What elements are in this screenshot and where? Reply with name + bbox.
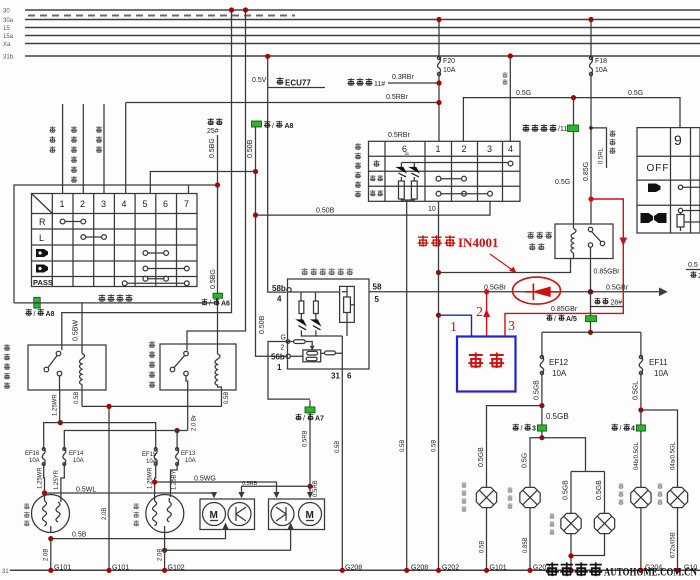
- svg-text:0.5B: 0.5B: [480, 541, 486, 553]
- svg-text:G101: G101: [54, 565, 71, 572]
- night switch internals resistors and lamps: [289, 292, 342, 369]
- light switch column headers 6 1 2 3 4: [402, 144, 513, 154]
- svg-text:2.0 Br: 2.0 Br: [192, 415, 198, 431]
- dimmer switch contacts high beam row: [143, 251, 169, 256]
- svg-text:0.5RB: 0.5RB: [242, 481, 258, 487]
- night light adjust switch 夜光调节开关 box: [288, 279, 370, 369]
- wire to left tail lamp 0.5G: [522, 438, 542, 487]
- connector 仪/官A6: [201, 293, 230, 307]
- fuse EF13: [171, 431, 197, 498]
- wire 0.5RBr from dimmer switch col4 to F20 wire: [126, 94, 439, 103]
- left tail lamp 左尾灯: [520, 487, 540, 507]
- node 0.50B wire y=171.8 feed from dimmer col5: [253, 169, 258, 174]
- svg-text:25#: 25#: [207, 128, 219, 135]
- wire 0.5RB branch to motor box1 K: [242, 481, 311, 497]
- wire right tail lamp to ground G204: [641, 508, 662, 572]
- fuse EF12: [534, 332, 569, 405]
- node main beam feed: [58, 420, 63, 425]
- label 仪表25#: [207, 118, 223, 135]
- svg-text:0.5B: 0.5B: [72, 532, 87, 539]
- svg-text:/: /: [554, 316, 556, 323]
- wire 0.50B from connector A8 to night-light switch 56b: [247, 121, 286, 356]
- node F20 wire y=83: [436, 80, 441, 85]
- svg-text:0.50B: 0.50B: [259, 315, 266, 334]
- svg-text:4: 4: [508, 144, 513, 154]
- light switch col6 illumination lamps and resistors: [398, 152, 419, 201]
- svg-text:1.25WR: 1.25WR: [38, 467, 44, 489]
- small lamp relay coil: [571, 224, 577, 259]
- wire 0.5G feeding light switch col2 and headlamp switch: [463, 90, 680, 141]
- stub wire to ECU77: [268, 77, 325, 87]
- wire dimmer col4 up to 0.5RBr wire: [125, 103, 127, 194]
- bus line 15a: [3, 34, 700, 40]
- dimmer switch contacts low beam row: [143, 266, 189, 271]
- terminal 56b / 1: [271, 353, 290, 373]
- license plate lamp left 牌照灯: [561, 513, 581, 533]
- svg-text:0.5RBr: 0.5RBr: [386, 94, 408, 101]
- svg-text:58: 58: [373, 283, 382, 292]
- svg-text:4: 4: [277, 295, 282, 304]
- wire dimmer col5 up to 0.50B wire: [150, 172, 255, 194]
- svg-text:IN4001: IN4001: [458, 235, 498, 250]
- wire far right lamp to ground 672a/05B: [671, 508, 698, 572]
- svg-text:10A: 10A: [552, 369, 567, 378]
- svg-text:0.5G: 0.5G: [555, 179, 570, 186]
- node F20 wire y=102.5: [436, 100, 441, 105]
- svg-text:EF16: EF16: [25, 451, 40, 457]
- svg-text:1: 1: [277, 363, 282, 372]
- node on bus 31b at x=267.7: [265, 54, 270, 59]
- svg-text:04b/0.5GL: 04b/0.5GL: [634, 441, 640, 470]
- svg-text:2: 2: [476, 305, 483, 320]
- svg-text:/: /: [209, 301, 211, 308]
- wire to far right tail lamp 04a/0.5GL: [641, 410, 678, 487]
- svg-text:G102: G102: [168, 565, 185, 572]
- wire right lamp to ground G102: [158, 533, 185, 572]
- wire to small lamp relay coil return: [439, 259, 571, 273]
- svg-text:0.5GB: 0.5GB: [596, 480, 603, 500]
- headlamp switch table right frame: [637, 128, 700, 233]
- bus line Xa: [3, 42, 700, 48]
- svg-text:1: 1: [60, 199, 65, 209]
- svg-text:/: /: [303, 416, 305, 423]
- diode IN4001 symbol: [525, 284, 559, 300]
- label 转向灯继电器 vertical: [71, 126, 77, 183]
- relay 1 coil feed wire 0.5BW: [14, 303, 218, 354]
- svg-text:11#: 11#: [374, 81, 385, 88]
- dimmer switch contacts row L: [81, 235, 107, 240]
- svg-text:0.5: 0.5: [688, 262, 698, 269]
- wire luggage lamp to ground G101: [480, 508, 507, 572]
- svg-text:31b: 31b: [3, 55, 14, 61]
- svg-text:0.85G: 0.85G: [583, 162, 590, 181]
- svg-text:F18: F18: [595, 58, 607, 65]
- svg-text:PASS: PASS: [33, 278, 53, 287]
- wire from bus 30 to dimmer relay 1 contact: [62, 10, 232, 350]
- light switch head lamp row contacts: [436, 191, 492, 196]
- light switch row labels 关 小灯 大灯: [370, 160, 383, 196]
- far right tail lamp: [667, 487, 687, 507]
- svg-text:0.5B: 0.5B: [400, 440, 406, 452]
- svg-text:OFF: OFF: [647, 163, 670, 174]
- svg-text:10A: 10A: [654, 369, 669, 378]
- svg-text:/: /: [521, 426, 523, 433]
- svg-text:0.5RL: 0.5RL: [599, 147, 605, 164]
- svg-text:/11: /11: [558, 126, 567, 133]
- node 0.50B wire y=215.1 feed to light switch col3: [253, 213, 258, 218]
- svg-text:0.5BG: 0.5BG: [210, 269, 217, 289]
- svg-text:0.5RB: 0.5RB: [313, 480, 319, 497]
- node 0.5WL tap on EF16 wire: [42, 490, 47, 495]
- terminal 58b / 4: [272, 284, 291, 304]
- dimmer switch contacts PASS row: [122, 276, 189, 285]
- svg-text:15: 15: [3, 26, 10, 32]
- fuse EF14: [54, 431, 188, 498]
- wire 0.5WL to motor box1: [45, 487, 215, 498]
- wire left tail lamp to ground G202: [523, 508, 550, 572]
- node right headlamp ground: [162, 548, 167, 553]
- svg-text:2: 2: [80, 199, 85, 209]
- svg-text:0.5B: 0.5B: [224, 392, 230, 404]
- label 仪表28# under arrow wire: [590, 298, 624, 307]
- svg-text:1.25BY: 1.25BY: [172, 470, 178, 490]
- svg-text:EF13: EF13: [181, 451, 196, 457]
- wire dimmer col3 to turn lamp: [103, 104, 105, 194]
- fuse EF16: [25, 423, 60, 497]
- fuse EF15: [60, 423, 157, 497]
- wire 0.5WG to motor box2: [155, 476, 277, 498]
- bus line 31b: [3, 55, 700, 61]
- svg-text:30: 30: [3, 9, 10, 15]
- label 右大灯 vertical: [133, 503, 139, 526]
- wire dimmer col1 to turn lamp: [62, 104, 64, 194]
- svg-text:/: /: [272, 123, 274, 130]
- svg-text:0.85GBr: 0.85GBr: [594, 269, 621, 276]
- svg-text:10A: 10A: [73, 458, 84, 464]
- svg-text:6: 6: [347, 372, 352, 381]
- dimmer relay 2 近光继电器 box: [160, 344, 236, 390]
- node tail lamp left split: [539, 435, 544, 440]
- module pin2 red wire with up arrow: [476, 292, 490, 337]
- diode IN4001 red circle: [513, 277, 561, 304]
- dimmer switch row labels R L highbeam lowbeam PASS: [33, 217, 53, 287]
- svg-text:G208: G208: [411, 565, 428, 572]
- svg-text:10A: 10A: [146, 459, 157, 465]
- node main wire to small lamp relay output: [588, 289, 594, 295]
- node fuse rail: [588, 330, 593, 335]
- terminal G / 2 wire to connector A7: [268, 335, 310, 400]
- fuse F20 branch from bus 30a: [437, 20, 455, 142]
- wire 0.50B to light control switch col3: [256, 201, 491, 215]
- svg-text:0.5G: 0.5G: [628, 90, 643, 97]
- stub wire 0.5RL to dome light: [591, 128, 616, 168]
- terminal 58 / 5: [373, 283, 382, 305]
- bus line 15: [3, 26, 700, 32]
- wire dimmer col2 to turn lamp relay: [82, 104, 84, 194]
- svg-text:0.5BW: 0.5BW: [73, 320, 80, 341]
- svg-text:0.5G: 0.5G: [516, 90, 531, 97]
- svg-text:0.85GBr: 0.85GBr: [551, 306, 578, 313]
- module 模块 blue box: [457, 337, 516, 392]
- right headlamp 右大灯: [146, 495, 184, 533]
- luggage lamp 行李舱灯: [476, 487, 496, 507]
- svg-text:0.5WL: 0.5WL: [76, 487, 96, 494]
- wire EF12 through connector front3: [541, 406, 543, 438]
- connector 仪/前A/5: [546, 314, 596, 323]
- annotation 二极管IN4001 red: [418, 235, 517, 273]
- svg-text:0.5GL: 0.5GL: [633, 381, 640, 400]
- svg-text:0.50B: 0.50B: [247, 139, 254, 158]
- label 右尾灯 vertical gray: [618, 483, 623, 505]
- svg-text:0.5GB: 0.5GB: [546, 412, 569, 421]
- node license lamp ground join: [568, 553, 573, 558]
- svg-text:0.5WG: 0.5WG: [194, 476, 216, 483]
- svg-text:4: 4: [122, 199, 127, 209]
- caption 变光开关: [98, 294, 132, 302]
- node col1 wire to small lamp relay coil: [436, 270, 441, 275]
- svg-text:2.0B: 2.0B: [44, 549, 50, 561]
- relay 2 output 2.0Br down: [188, 390, 198, 431]
- headlamp switch head lamp icons: [641, 213, 667, 223]
- connector 仪表插件/11: [522, 124, 578, 133]
- svg-text:3: 3: [487, 144, 492, 154]
- label 牌照灯 vertical gray: [549, 513, 554, 535]
- wire light switch col6 to ground G208: [400, 201, 428, 571]
- connector 仪/官A7: [295, 407, 324, 423]
- relay 2 coil return 0.5B: [222, 390, 231, 406]
- svg-text:A7: A7: [315, 416, 324, 423]
- wire left lamp to ground G101: [44, 539, 72, 572]
- svg-text:5: 5: [375, 295, 380, 304]
- svg-text:0.5G: 0.5G: [522, 453, 529, 468]
- relay2 coil bottom to return: [218, 385, 222, 391]
- license plate lamp right 牌照灯: [594, 513, 614, 533]
- svg-text:0.3RBr: 0.3RBr: [392, 74, 414, 81]
- wire to license plate lamps: [542, 438, 605, 513]
- svg-text:3: 3: [532, 426, 536, 433]
- svg-text:10A: 10A: [29, 458, 40, 464]
- left headlamp 左大灯: [32, 495, 70, 533]
- svg-text:G202: G202: [442, 565, 459, 572]
- svg-text:F20: F20: [443, 58, 455, 65]
- svg-text:/: /: [34, 311, 36, 318]
- svg-text:10: 10: [428, 206, 436, 213]
- fuse F18 branch from bus 30a: [589, 20, 607, 225]
- dimmer relay 1 远光继电器 box: [28, 345, 106, 390]
- light switch OFF row contact: [401, 161, 513, 166]
- light switch small lamp row contacts: [436, 176, 466, 181]
- headlamp switch contact small lamp row: [678, 185, 700, 189]
- dimmer switch column headers: [60, 199, 190, 209]
- node on bus 30 at x=231.5: [229, 7, 234, 12]
- node EF12 output split: [539, 403, 544, 408]
- label 左大灯 vertical: [24, 503, 30, 526]
- svg-text:0.5V: 0.5V: [252, 77, 267, 84]
- label 左尾灯 vertical gray: [507, 487, 512, 509]
- svg-text:7: 7: [184, 199, 189, 209]
- svg-text:6: 6: [163, 199, 168, 209]
- svg-text:M: M: [210, 510, 218, 521]
- svg-text:15a: 15a: [3, 34, 14, 40]
- svg-text:R: R: [39, 217, 46, 227]
- svg-text:04a/0.5GL: 04a/0.5GL: [671, 441, 677, 470]
- svg-text:G101: G101: [490, 565, 507, 572]
- junction to dome light stub: [589, 126, 593, 130]
- small lamp relay contacts: [588, 227, 604, 247]
- node 0.5BG wire y=185.3: [215, 182, 220, 187]
- node left headlamp ground: [48, 536, 53, 541]
- svg-text:31: 31: [331, 372, 340, 381]
- terminal 31 / 6 wire to ground G208: [331, 369, 362, 572]
- connector 仪/发A8: [252, 121, 294, 130]
- small lamp relay output 0.85GBr: [591, 247, 621, 292]
- headlamp switch small lamp icon: [648, 184, 661, 193]
- wire from bus 31b to light switch col4: [502, 56, 510, 141]
- small lamp relay 小灯继电器 box: [555, 224, 613, 259]
- node on bus 30a at x=439: [436, 17, 441, 22]
- module pin3 red wire from relay node: [505, 199, 627, 337]
- svg-text:1.25WR: 1.25WR: [53, 394, 59, 416]
- svg-text:5: 5: [143, 199, 148, 209]
- svg-text:4: 4: [631, 426, 635, 433]
- wire 0.5BG from instrument 25 to dimmer relay 2 coil: [209, 135, 218, 354]
- label 转向灯 vertical: [49, 126, 55, 153]
- label 转向灯 vertical second: [96, 126, 102, 153]
- svg-text:3: 3: [508, 319, 515, 334]
- svg-text:A6: A6: [221, 301, 230, 308]
- bus line 30: [3, 9, 700, 16]
- svg-text:G101: G101: [112, 565, 129, 572]
- svg-text:/: /: [620, 426, 622, 433]
- svg-text:31: 31: [2, 569, 9, 575]
- right edge instrument label fragment: [686, 262, 700, 280]
- node main wire to module pin2: [484, 289, 489, 294]
- svg-text:0.50B: 0.50B: [316, 208, 335, 215]
- relay 1 coil: [80, 354, 85, 385]
- svg-text:M: M: [306, 510, 314, 521]
- dimmer switch 变光开关 table frame: [32, 194, 198, 287]
- wire from bus 30 to dimmer relay 2 contact: [187, 10, 246, 350]
- node on bus 30a at x=591: [588, 17, 593, 22]
- node 0.5WG tap on EF15 wire: [152, 479, 157, 484]
- night switch lower resistor network: [290, 340, 343, 362]
- wire 0.85GBr to connector A5 and fuse rail: [551, 292, 591, 333]
- svg-text:2: 2: [462, 144, 467, 154]
- label 灯光控制开关 vertical: [355, 143, 361, 197]
- svg-text:10A: 10A: [185, 458, 196, 464]
- relay 1 coil return 0.5B: [74, 385, 82, 407]
- svg-text:A/5: A/5: [566, 316, 577, 323]
- label 远光继电器 vertical: [4, 344, 10, 389]
- svg-text:0.5GB: 0.5GB: [478, 447, 485, 467]
- wire light switch col1 down to ground G202: [432, 201, 460, 571]
- wire 0.5RB from connector A7 to motor K: [303, 400, 320, 497]
- wire license lamps to ground: [571, 534, 605, 570]
- svg-text:Xa: Xa: [3, 42, 11, 48]
- node 0.5RB split: [307, 484, 312, 489]
- svg-text:3: 3: [101, 199, 106, 209]
- relay 2 switch contacts: [170, 351, 188, 376]
- svg-text:G208: G208: [345, 565, 362, 572]
- svg-text:EF11: EF11: [649, 358, 668, 367]
- node on bus 30 at x=245.5: [243, 7, 248, 12]
- fuse EF11: [633, 332, 669, 410]
- wire 0.5G to instrument connector 11 and small lamp relay coil: [555, 98, 574, 224]
- dimmer switch contacts row R: [60, 219, 86, 224]
- svg-text:30a: 30a: [3, 18, 14, 24]
- wire from 0.5BG line down left side to connector A8: [14, 185, 189, 303]
- svg-text:10A: 10A: [595, 67, 608, 74]
- relay 2 output wire: [186, 376, 188, 390]
- wire to instrument 11 with 0.3RBr: [347, 74, 439, 88]
- caption 夜光调节开关: [301, 268, 353, 275]
- wire 0.5B motor box1 ground to left lamp ground: [51, 530, 226, 539]
- headlamp motor box 1: [200, 499, 255, 530]
- svg-text:1.25WR: 1.25WR: [148, 467, 154, 489]
- fuse rail wire: [542, 331, 641, 333]
- relay 1 switch contacts: [44, 351, 62, 376]
- svg-text:EF14: EF14: [69, 451, 84, 457]
- svg-text:L: L: [39, 233, 44, 243]
- wire 0.5GB to luggage lamp: [478, 406, 542, 487]
- right tail lamp 右尾灯: [631, 487, 651, 507]
- svg-text:EF12: EF12: [549, 358, 569, 367]
- light control switch 灯光控制开关 table frame: [369, 141, 521, 201]
- svg-text:2.0B: 2.0B: [102, 508, 108, 520]
- node F18 wire y=199 red feed: [588, 196, 593, 201]
- connector 室/前4: [611, 424, 645, 433]
- connector 仪/官A8 lower: [25, 297, 54, 318]
- svg-text:A8: A8: [285, 123, 294, 130]
- svg-text:1: 1: [450, 320, 457, 335]
- night switch sub box with resistor: [340, 286, 355, 336]
- wire EF11 through connector front4 to right tail lamp: [634, 410, 641, 487]
- wire motor box2 ground to right lamp ground: [165, 530, 291, 551]
- svg-text:9: 9: [674, 132, 682, 148]
- svg-text:0.85B: 0.85B: [523, 537, 529, 553]
- svg-text:1.25YR: 1.25YR: [54, 469, 60, 490]
- svg-text:10A: 10A: [443, 67, 456, 74]
- bus line 30a: [3, 18, 700, 24]
- headlamp switch contact and resistor head lamp row: [677, 208, 700, 231]
- relay 2 coil: [215, 354, 220, 385]
- coil return bus to ground 2.0B: [82, 406, 222, 570]
- svg-text:28#: 28#: [611, 300, 623, 307]
- svg-text:58b: 58b: [272, 284, 286, 293]
- connector 室/前3: [512, 424, 546, 433]
- headlamp motor box 2: [269, 499, 325, 530]
- svg-text:0.5RBr: 0.5RBr: [388, 132, 410, 139]
- node EF11 output split: [638, 407, 643, 412]
- svg-text:0.5B: 0.5B: [335, 441, 341, 453]
- node coil return bus: [106, 404, 111, 409]
- svg-text:0.5GBr: 0.5GBr: [606, 285, 629, 292]
- svg-text:AUTOHOME.COM.CN: AUTOHOME.COM.CN: [604, 565, 697, 579]
- svg-text:ECU77: ECU77: [285, 79, 311, 88]
- svg-text:0.5RB: 0.5RB: [303, 430, 309, 447]
- wire dimmer col7 up to 0.5BG wire: [189, 185, 218, 194]
- ground bus 31: [2, 569, 700, 575]
- svg-text:56b: 56b: [271, 353, 285, 362]
- svg-text:G: G: [281, 335, 286, 342]
- svg-text:0.5GB: 0.5GB: [563, 480, 570, 500]
- watermark 汽车之家: [546, 562, 603, 576]
- svg-text:2: 2: [281, 345, 285, 352]
- node 0.5G wire at x=573.5: [571, 95, 576, 100]
- label far right lamp vertical gray: [657, 483, 662, 505]
- svg-text:EF15: EF15: [142, 452, 157, 458]
- svg-text:2.0B: 2.0B: [158, 549, 164, 561]
